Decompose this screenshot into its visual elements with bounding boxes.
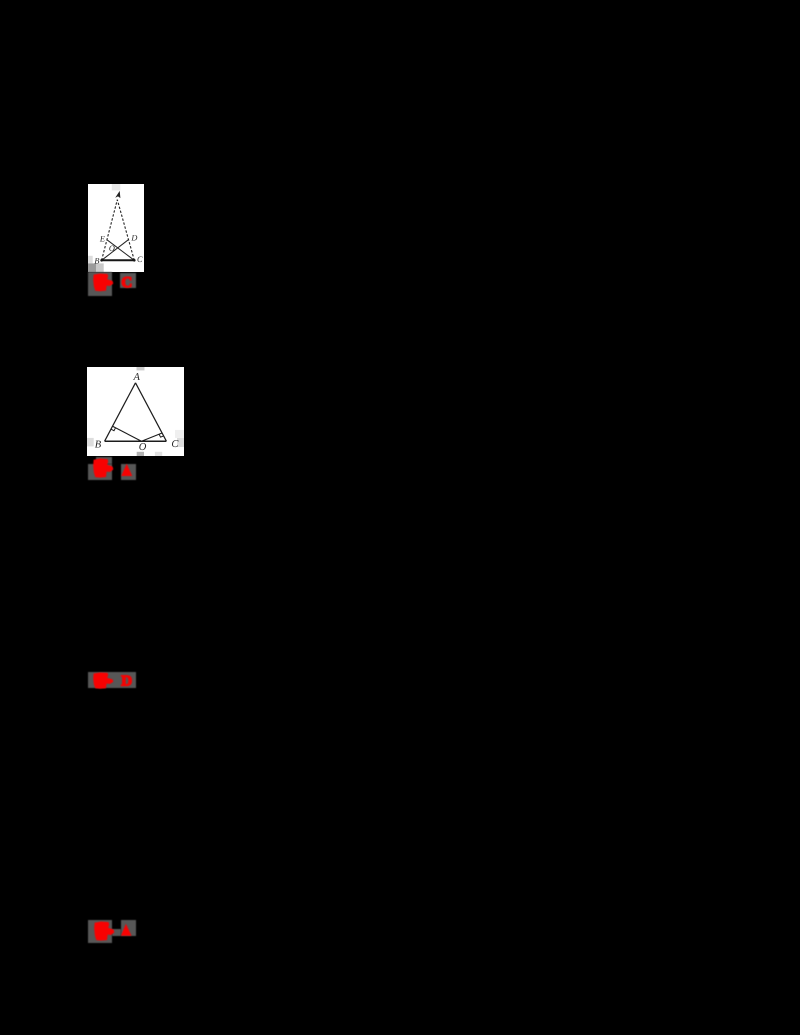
answer row 4: gray chip left	[88, 920, 112, 943]
answer row 3: red letter D	[120, 673, 134, 687]
answer row 3: gray chip (single wide)	[88, 672, 136, 688]
vertex dot B	[100, 259, 103, 262]
svg-text:C: C	[121, 275, 132, 289]
segment O to foot on AB	[113, 426, 142, 441]
svg-text:B: B	[94, 257, 99, 266]
segment O to foot on AC	[142, 433, 163, 441]
artifact patch bottom right	[155, 452, 162, 456]
artifact patch left of B	[87, 438, 94, 447]
figure 2: triangle diagram (white image box)	[87, 367, 184, 456]
answer row 1: red letter C	[120, 274, 134, 289]
svg-text:B: B	[95, 440, 102, 451]
side BA (dashed)	[102, 200, 118, 261]
svg-text:O: O	[139, 442, 147, 453]
answer row 4: red icon blob	[94, 921, 115, 942]
white image background	[87, 367, 184, 456]
side CA (dashed)	[117, 200, 134, 261]
answer row 2: gray chip left	[88, 464, 112, 480]
answer row 3: red icon blob	[93, 672, 114, 689]
artifact patch top center	[137, 367, 145, 370]
artifact patch right of C	[177, 438, 184, 447]
answer row 1: red icon blob	[93, 273, 114, 293]
answer row 4: gray chip right	[121, 920, 137, 936]
vertex dot C	[133, 259, 136, 262]
answer row 2: gray chip left upper step	[96, 457, 113, 464]
artifact patch left-bottom	[88, 256, 93, 264]
artifact patch top (faint A label block)	[112, 184, 121, 190]
svg-text:E: E	[99, 235, 105, 244]
right angle mark at foot on AB	[111, 428, 115, 431]
svg-text:D: D	[130, 233, 137, 242]
side AC	[136, 383, 167, 441]
svg-text:C: C	[171, 439, 179, 450]
svg-text:O: O	[109, 244, 115, 253]
side AB	[105, 383, 136, 441]
white image background	[88, 184, 144, 272]
artifact patch bottom center	[137, 452, 144, 456]
base BC	[105, 440, 167, 442]
answer row 2: gray chip right	[121, 464, 137, 480]
svg-text:A: A	[132, 372, 140, 383]
right angle mark at foot on AC	[159, 434, 164, 437]
arrow head at apex A	[115, 191, 120, 198]
artifact patch below B dark	[88, 263, 96, 272]
base BC (thick)	[102, 259, 135, 261]
artifact patch right upper	[175, 430, 184, 438]
svg-text:D: D	[121, 673, 132, 687]
answer row 2: red letter A	[120, 463, 134, 477]
answer row 4: red letter A	[120, 923, 134, 937]
answer row 1: gray chip right	[120, 273, 136, 289]
answer row 4: gray bridge	[112, 929, 121, 936]
answer row 1: gray chip left	[88, 272, 112, 296]
cevian CE	[107, 240, 134, 260]
figure 1: triangle diagram (white image box)	[88, 184, 144, 272]
svg-text:C: C	[137, 255, 143, 264]
cevian BD	[102, 240, 129, 261]
answer row 2: red icon blob	[93, 458, 114, 479]
artifact patch below B light	[96, 263, 104, 272]
